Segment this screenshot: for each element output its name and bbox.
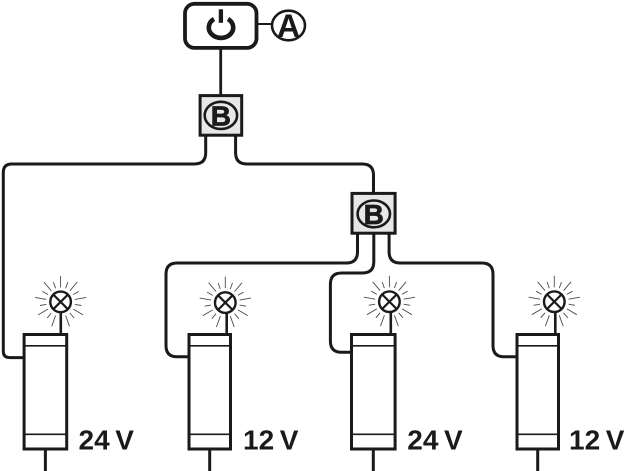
svg-text:24 V: 24 V: [79, 425, 135, 456]
wire LED driver 2 output: [208, 449, 211, 471]
wire switch A to distributor B1: [219, 48, 222, 96]
value label 12 V (driver 4): [569, 425, 625, 456]
svg-text:B: B: [211, 100, 231, 131]
lamp E1 symbol: [50, 292, 71, 313]
power icon ring: [209, 19, 233, 38]
lamp E4 stem: [554, 311, 557, 334]
svg-text:24 V: 24 V: [407, 425, 463, 456]
distributor B2 label B: [358, 199, 390, 230]
LED driver 1 body: [24, 335, 67, 450]
LED driver 2 body: [189, 335, 231, 450]
lamp E3 symbol: [379, 291, 400, 312]
lamp E4 symbol: [544, 291, 565, 312]
LED driver 3 body: [352, 335, 396, 450]
wire B1 left output to LED driver 1: [3, 135, 205, 358]
switch A body (power button): [185, 4, 257, 48]
svg-text:12 V: 12 V: [243, 425, 299, 456]
LED driver 4 body: [517, 335, 559, 450]
value label 24 V (driver 3): [407, 425, 463, 456]
wire B2 right output to LED driver 4: [389, 233, 519, 357]
svg-text:A: A: [277, 8, 300, 44]
distributor B2 box: [352, 193, 395, 233]
power icon bar: [219, 9, 223, 22]
lamp E2 rays: [200, 277, 251, 327]
leader line to label A: [257, 23, 273, 25]
svg-text:B: B: [364, 199, 384, 230]
wire LED driver 3 output: [372, 449, 375, 471]
lamp E4 rays: [529, 276, 580, 326]
lamp E3 rays: [364, 276, 415, 326]
distributor B1 box: [200, 96, 242, 136]
wire B2 left output to LED driver 2: [166, 233, 358, 357]
wire LED driver 1 output: [44, 449, 47, 471]
lamp E1 rays: [35, 276, 86, 326]
label A (callout): [272, 8, 305, 44]
lamp E2 symbol: [215, 292, 236, 313]
lamp E3 stem: [389, 311, 392, 334]
svg-text:12 V: 12 V: [569, 425, 625, 456]
value label 12 V (driver 2): [243, 425, 299, 456]
distributor B1 label B: [205, 100, 237, 131]
wire B1 right output to distributor B2: [236, 135, 374, 193]
lamp E2 stem: [225, 312, 228, 334]
wire B2 middle output to LED driver 3: [330, 233, 373, 352]
lamp E1 stem: [59, 312, 62, 335]
value label 24 V (driver 1): [79, 425, 135, 456]
wire LED driver 4 output: [536, 449, 539, 471]
